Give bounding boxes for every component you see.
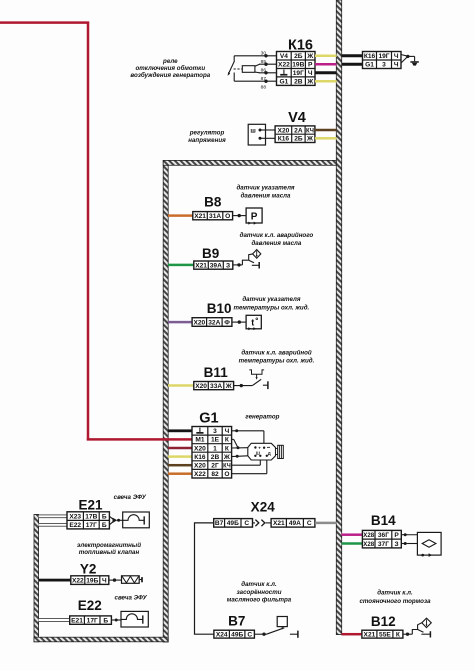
sensor B10 description <box>234 296 310 311</box>
sensor B14 body box with diamond <box>417 532 441 557</box>
svg-text:17В: 17В <box>85 513 97 520</box>
svg-text:Е21: Е21 <box>78 497 103 512</box>
svg-text:В9: В9 <box>202 246 219 261</box>
fuel valve Y2 symbol <box>109 576 142 584</box>
svg-text:Х20: Х20 <box>194 462 206 469</box>
generator G1 body octagon <box>248 443 276 460</box>
svg-text:масляного фильтра: масляного фильтра <box>227 597 292 604</box>
svg-text:Х28: Х28 <box>363 532 374 539</box>
svg-text:О: О <box>225 213 230 220</box>
svg-text:Х20: Х20 <box>195 383 207 390</box>
svg-text:Х28: Х28 <box>363 541 374 548</box>
svg-text:30: 30 <box>261 50 267 56</box>
generator G1 internal terminals <box>254 445 271 457</box>
svg-text:топливный клапан: топливный клапан <box>79 549 140 556</box>
svg-text:49Б: 49Б <box>227 520 239 527</box>
svg-text:49А: 49А <box>289 520 301 527</box>
svg-text:засорённости: засорённости <box>236 589 281 596</box>
wire 17G white panel to E21 row2 <box>39 523 67 527</box>
sensor B14 wires to symbol <box>401 533 429 545</box>
svg-text:В14: В14 <box>371 513 396 528</box>
svg-text:39А: 39А <box>210 262 222 269</box>
connector X24 mating chevrons <box>253 520 272 527</box>
svg-text:ш: ш <box>250 128 255 135</box>
svg-text:КЧ: КЧ <box>223 462 231 469</box>
svg-text:З: З <box>226 262 230 269</box>
wire 36G pink panel to B14 <box>342 533 363 536</box>
panel boundary bar top (horizontal) <box>163 160 336 165</box>
svg-text:85: 85 <box>261 59 267 65</box>
relay K16 connector table <box>277 52 316 86</box>
svg-text:Ч: Ч <box>102 577 107 584</box>
svg-text:Х23: Х23 <box>69 513 81 520</box>
svg-text:G1: G1 <box>365 62 374 69</box>
wire 82 orange panel to G1 <box>168 472 193 475</box>
svg-text:+: + <box>258 445 261 450</box>
svg-text:P: P <box>251 212 258 223</box>
svg-text:32А: 32А <box>208 319 220 326</box>
glow plug E21 converging arrow <box>109 516 122 525</box>
glow plug E22 description <box>115 595 148 602</box>
svg-text:напряжения: напряжения <box>188 137 226 144</box>
svg-text:возбуждения генератора: возбуждения генератора <box>130 72 210 79</box>
svg-text:Х20: Х20 <box>193 319 205 326</box>
svg-text:Х22: Х22 <box>72 577 84 584</box>
svg-text:Ж: Ж <box>223 454 230 461</box>
svg-text:Д: Д <box>268 451 271 456</box>
wire 2G brown panel to G1 <box>168 464 193 467</box>
sensor B12 pressure switch symbol <box>403 618 431 637</box>
svg-text:свеча ЭФУ: свеча ЭФУ <box>115 595 148 602</box>
svg-text:V4: V4 <box>288 110 306 126</box>
svg-text:Ф: Ф <box>224 319 230 326</box>
generator G1 junction dots <box>235 429 239 457</box>
wire 2V yellow panel to G1 <box>168 455 193 458</box>
svg-text:М1: М1 <box>195 437 204 444</box>
svg-text:19Г: 19Г <box>293 70 304 77</box>
svg-text:1Е: 1Е <box>211 437 220 444</box>
relay K16 pin junction dots <box>264 54 267 83</box>
svg-text:В11: В11 <box>204 365 229 380</box>
svg-text:Ж: Ж <box>306 136 313 143</box>
wire 49A gray X24 to panel <box>315 522 337 525</box>
ground connector table K16/G1 <box>363 52 402 69</box>
svg-text:1: 1 <box>213 445 217 452</box>
svg-text:датчик к.л. аварийной: датчик к.л. аварийной <box>241 350 312 357</box>
svg-text:Р: Р <box>394 532 399 539</box>
wire 19V pink K16 to panel <box>315 63 337 66</box>
svg-text:датчик к.л. аварийного: датчик к.л. аварийного <box>240 232 314 239</box>
svg-text:Х22: Х22 <box>278 62 290 69</box>
svg-text:Ч: Ч <box>308 70 313 77</box>
sensor B8 wire to symbol <box>233 215 247 217</box>
wire 19B black panel to Y2 <box>39 579 71 582</box>
wire 2V yellow K16 to panel <box>315 80 337 83</box>
sensor B7 connector table <box>214 630 255 638</box>
wire 37G green panel to B14 <box>342 542 363 545</box>
svg-text:К16: К16 <box>364 53 376 60</box>
svg-text:давления масла: давления масла <box>251 240 301 247</box>
svg-text:датчик указателя: датчик указателя <box>242 296 300 303</box>
sensor B8 pressure gauge symbol P <box>246 208 262 225</box>
ground wires converge <box>401 55 415 64</box>
svg-text:Е21: Е21 <box>71 617 83 624</box>
regulator V4 pins <box>259 129 276 140</box>
svg-text:3: 3 <box>213 428 217 435</box>
svg-text:31А: 31А <box>209 213 221 220</box>
svg-text:Ч: Ч <box>394 53 399 60</box>
svg-text:В12: В12 <box>371 614 396 629</box>
wire 31A orange panel to B8 <box>168 214 193 217</box>
svg-text:87: 87 <box>261 76 267 82</box>
svg-text:свеча ЭФУ: свеча ЭФУ <box>114 494 147 501</box>
svg-text:82: 82 <box>211 471 219 478</box>
svg-text:2В: 2В <box>294 79 303 86</box>
svg-text:17Г: 17Г <box>86 522 97 529</box>
svg-text:Б: Б <box>103 617 108 624</box>
wire 55E red panel to B12 <box>342 633 362 636</box>
regulator V4 connector table <box>275 126 315 143</box>
wire 1E red feed (battery) horizontal top <box>0 21 89 24</box>
svg-text:В7: В7 <box>228 613 245 628</box>
svg-text:Х21: Х21 <box>273 520 285 527</box>
wire 39A green panel to B9 <box>168 264 194 267</box>
EFU box left bar (vertical) <box>34 514 39 641</box>
svg-text:Р: Р <box>308 62 313 69</box>
sensor B7 description <box>236 581 281 596</box>
glow plug E21 heater symbol <box>123 512 150 528</box>
sensor B8 description <box>236 185 294 200</box>
generator G1 connector table <box>192 427 232 479</box>
sensor B12 description <box>359 590 431 605</box>
wire 32A violet panel to B10 <box>168 321 192 324</box>
svg-text:С: С <box>244 520 249 527</box>
glow plug E21 description <box>114 494 147 501</box>
svg-text:датчик к.л.: датчик к.л. <box>377 590 413 597</box>
glow plug E22 symbol <box>111 611 148 627</box>
svg-text:19Б: 19Б <box>86 577 98 584</box>
sensor B9 description <box>240 232 314 247</box>
wire 19G black K16 to panel <box>315 71 337 74</box>
svg-text:С: С <box>307 520 312 527</box>
regulator V4 body box with Sh <box>248 124 265 145</box>
wire 2B yellow K16 to panel <box>315 55 337 58</box>
svg-text:температуры охл. жид.: температуры охл. жид. <box>239 357 315 364</box>
svg-text:Y2: Y2 <box>80 562 97 577</box>
svg-text:Х22: Х22 <box>194 471 206 478</box>
svg-text:Х21: Х21 <box>364 632 376 639</box>
EFU box bottom bar (horizontal) <box>34 637 168 642</box>
svg-text:отключения обмотки: отключения обмотки <box>135 65 205 72</box>
wire 2B yellow V4 to panel <box>315 137 337 140</box>
svg-text:температуры охл. жид.: температуры охл. жид. <box>234 304 310 311</box>
svg-text:Х21: Х21 <box>194 213 206 220</box>
sensor B12 connector table <box>362 630 403 638</box>
connector X24 table X21 side <box>271 519 315 528</box>
svg-text:О: О <box>224 471 229 478</box>
svg-text:К16: К16 <box>278 136 290 143</box>
svg-text:17Г: 17Г <box>87 617 98 624</box>
svg-text:Ж: Ж <box>306 53 313 60</box>
svg-text:К16: К16 <box>194 454 206 461</box>
sensor B9 pressure switch symbol <box>233 250 261 269</box>
sensor B9 connector table <box>194 261 233 269</box>
svg-text:t: t <box>251 317 254 327</box>
svg-text:Ч: Ч <box>225 428 230 435</box>
connector X24 table B7 side <box>214 519 253 528</box>
svg-text:стояночного тормоза: стояночного тормоза <box>359 598 431 605</box>
regulator description text <box>188 129 226 144</box>
relay K16 pin number labels 30 85 86 87 88 <box>261 50 267 90</box>
svg-text:3: 3 <box>382 62 386 69</box>
sensor B10 wire to symbol <box>232 321 246 323</box>
svg-text:Ж: Ж <box>225 383 232 390</box>
svg-text:Х21: Х21 <box>195 262 207 269</box>
svg-text:V4: V4 <box>280 53 288 60</box>
junction dot ground <box>406 55 409 58</box>
svg-text:Е22: Е22 <box>78 598 102 613</box>
svg-text:регулятор: регулятор <box>189 129 225 136</box>
svg-text:З: З <box>395 541 399 548</box>
svg-text:Х24: Х24 <box>251 500 276 515</box>
fuel valve Y2 connector table <box>71 576 109 585</box>
junction dot B8 <box>238 214 241 217</box>
wire 33A yellow panel to B11 <box>168 384 194 387</box>
sensor B11 connector table <box>194 382 234 390</box>
wire 1 red panel to G1 <box>168 447 193 450</box>
sensor B11 thermal switch symbol <box>234 370 268 389</box>
svg-text:2Б: 2Б <box>294 136 303 143</box>
relay description text <box>130 58 210 79</box>
wire 3 black panel to G1 <box>168 429 193 432</box>
panel boundary bar left (vertical) <box>163 160 168 642</box>
svg-text:В7: В7 <box>215 520 224 527</box>
svg-text:давления масла: давления масла <box>241 193 291 200</box>
wire 17V white panel to E21 row1 <box>39 515 67 519</box>
junction dot B10 <box>238 320 241 323</box>
svg-text:В8: В8 <box>204 194 222 209</box>
svg-text:электромагнитный: электромагнитный <box>77 542 141 549</box>
svg-text:G1: G1 <box>199 411 218 427</box>
svg-text:Ч: Ч <box>394 62 399 69</box>
svg-text:88: 88 <box>261 85 267 91</box>
svg-text:датчик указателя: датчик указателя <box>236 185 294 192</box>
sensor B10 connector table <box>192 318 232 327</box>
svg-text:С: С <box>247 632 252 639</box>
svg-text:КЧ: КЧ <box>306 127 314 134</box>
svg-text:2В: 2В <box>211 454 220 461</box>
svg-text:19В: 19В <box>292 62 304 69</box>
svg-text:G1: G1 <box>280 79 289 86</box>
connector X24 link wire to B7 <box>195 523 214 634</box>
svg-text:реле: реле <box>162 58 178 65</box>
svg-text:Е22: Е22 <box>69 522 81 529</box>
svg-text:Ш: Ш <box>256 450 260 455</box>
glow plug E21 connector table <box>67 512 109 529</box>
sensor B10 temperature sensor symbol t <box>246 315 261 330</box>
svg-text:Б: Б <box>102 513 107 520</box>
relay K16 pin wires 30 85 86 87 <box>234 56 276 81</box>
wire 19G black panel to ground table <box>342 54 363 57</box>
svg-text:2А: 2А <box>294 127 303 134</box>
svg-text:55Е: 55Е <box>379 632 391 639</box>
generator G1 terminal wires <box>232 431 267 474</box>
svg-text:датчик к.л.: датчик к.л. <box>241 581 277 588</box>
wire 2A brown V4 to panel <box>315 129 337 132</box>
generator description text <box>245 414 279 421</box>
wire 3 black panel to ground table <box>342 63 363 66</box>
chassis ground symbol <box>410 61 418 65</box>
fuel valve Y2 description <box>77 542 141 556</box>
relay K16 coil and contact symbol <box>228 56 260 81</box>
svg-text:33А: 33А <box>210 383 222 390</box>
sensor B14 connector table <box>362 530 401 548</box>
svg-text:2Б: 2Б <box>294 53 303 60</box>
svg-text:2Г: 2Г <box>211 462 219 469</box>
glow plug E22 connector table <box>70 616 112 625</box>
svg-text:37Г: 37Г <box>378 541 389 548</box>
wire 17G white panel to E22 <box>39 618 70 622</box>
sensor B7 switch symbol <box>254 617 298 638</box>
svg-text:Ж: Ж <box>306 79 313 86</box>
svg-text:86: 86 <box>261 67 267 73</box>
wire 1E red feed vertical <box>87 22 90 441</box>
svg-text:В10: В10 <box>207 301 232 316</box>
svg-text:49Б: 49Б <box>231 632 243 639</box>
svg-text:36Г: 36Г <box>378 532 389 539</box>
svg-text:19Г: 19Г <box>378 53 389 60</box>
generator G1 pulley <box>276 445 284 458</box>
svg-text:Б: Б <box>102 522 107 529</box>
sensor B8 connector table <box>193 212 233 220</box>
sensor B11 description <box>239 350 315 365</box>
wire 1E red feed horizontal to G1 M1 (crosses panel bar) <box>87 438 193 441</box>
svg-text:генератор: генератор <box>245 414 279 421</box>
svg-text:Х24: Х24 <box>216 632 228 639</box>
panel boundary bar right (vertical, full height) <box>336 0 341 635</box>
svg-text:Х20: Х20 <box>278 127 290 134</box>
svg-text:Х20: Х20 <box>194 445 206 452</box>
